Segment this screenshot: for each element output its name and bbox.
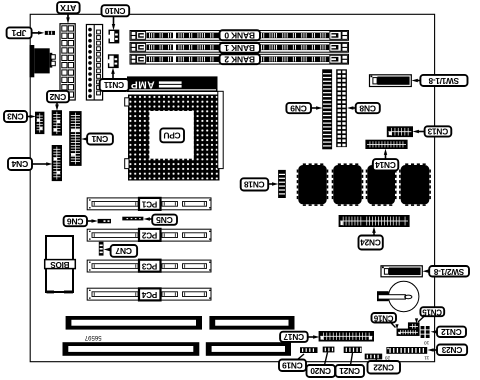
svg-text:CN7: CN7 bbox=[115, 246, 132, 256]
svg-text:PC3: PC3 bbox=[141, 262, 157, 271]
svg-text:AMP: AMP bbox=[130, 79, 154, 90]
svg-text:CN2: CN2 bbox=[49, 92, 66, 102]
svg-text:CN17: CN17 bbox=[283, 332, 304, 342]
svg-text:CN24: CN24 bbox=[360, 238, 381, 248]
svg-text:JP1: JP1 bbox=[11, 28, 26, 38]
svg-text:CN11: CN11 bbox=[104, 80, 125, 90]
svg-text:CN4: CN4 bbox=[11, 159, 28, 169]
svg-text:CN20: CN20 bbox=[310, 366, 331, 376]
svg-text:CN6: CN6 bbox=[67, 216, 84, 226]
svg-text:CN21: CN21 bbox=[339, 366, 360, 376]
svg-text:PC1: PC1 bbox=[141, 200, 157, 209]
svg-text:BANK 2: BANK 2 bbox=[224, 54, 255, 64]
svg-text:CN18: CN18 bbox=[244, 180, 265, 190]
svg-text:CN16: CN16 bbox=[373, 313, 393, 322]
svg-text:CN1: CN1 bbox=[91, 134, 108, 144]
svg-text:56597: 56597 bbox=[84, 334, 102, 341]
svg-text:BANK 0: BANK 0 bbox=[224, 31, 255, 41]
svg-text:CN3: CN3 bbox=[7, 112, 24, 122]
svg-text:SW1/1-8: SW1/1-8 bbox=[428, 76, 459, 85]
svg-text:CN8: CN8 bbox=[359, 103, 376, 113]
svg-text:CN5: CN5 bbox=[156, 215, 173, 225]
svg-text:CN10: CN10 bbox=[105, 6, 126, 16]
svg-text:BANK 1: BANK 1 bbox=[224, 43, 255, 53]
svg-text:CN12: CN12 bbox=[441, 327, 462, 337]
svg-text:CN14: CN14 bbox=[375, 160, 396, 170]
svg-text:PC4: PC4 bbox=[141, 290, 157, 299]
svg-text:11: 11 bbox=[424, 355, 429, 361]
svg-text:CPU: CPU bbox=[164, 131, 181, 141]
svg-text:10: 10 bbox=[424, 340, 430, 346]
svg-text:CN15: CN15 bbox=[422, 307, 442, 316]
svg-text:CN23: CN23 bbox=[441, 345, 462, 355]
svg-text:CN19: CN19 bbox=[282, 360, 303, 370]
svg-text:CN22: CN22 bbox=[373, 362, 394, 372]
svg-text:20: 20 bbox=[385, 355, 391, 361]
svg-text:CN9: CN9 bbox=[290, 103, 307, 113]
svg-text:PC2: PC2 bbox=[141, 231, 157, 240]
svg-text:ATX: ATX bbox=[60, 3, 76, 13]
svg-text:CN13: CN13 bbox=[427, 127, 448, 137]
svg-text:BIOS: BIOS bbox=[50, 260, 70, 269]
svg-text:SW2/1-8: SW2/1-8 bbox=[433, 267, 464, 276]
